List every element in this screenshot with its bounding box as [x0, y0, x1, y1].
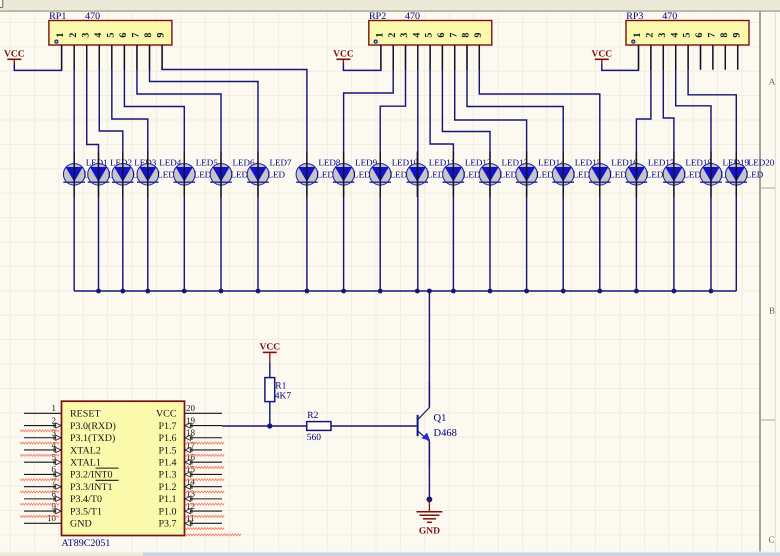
- svg-text:19: 19: [186, 415, 196, 425]
- svg-text:XTAL1: XTAL1: [70, 458, 101, 469]
- IC U1 INT0 overline: [96, 467, 119, 469]
- IC U1 pin 19 P1.7: [185, 415, 223, 428]
- svg-text:470: 470: [405, 11, 420, 22]
- wire RP1 pin8 to LED7 to bus: [150, 45, 258, 291]
- svg-text:LED: LED: [390, 170, 408, 180]
- LED D6 symbol: [210, 164, 232, 186]
- zone label C: [768, 535, 774, 545]
- IC U1 AT89C2051 body: [62, 401, 185, 535]
- transistor Q1 D468: [418, 382, 457, 467]
- wire RP3 pin5 to LED20 to bus: [688, 45, 736, 291]
- svg-text:2: 2: [387, 33, 398, 38]
- svg-text:P3.2/INT0: P3.2/INT0: [70, 470, 113, 481]
- svg-text:P1.4: P1.4: [158, 458, 176, 469]
- IC U1 pin 7 P3.3/INT1: [24, 476, 62, 489]
- IC U1 pin 5 XTAL1: [24, 452, 62, 465]
- svg-text:A: A: [769, 77, 776, 87]
- LED D16 symbol: [589, 164, 611, 186]
- resistor R1 4K7: [265, 378, 292, 402]
- LED D19 symbol: [700, 164, 722, 186]
- LED D13 comment label: [500, 170, 518, 180]
- LED D3 symbol: [112, 164, 134, 186]
- svg-text:P3.5/T1: P3.5/T1: [70, 506, 102, 517]
- wire R1 to junction: [269, 402, 271, 426]
- zone label A: [769, 77, 776, 87]
- wire VCC to RP3 pin1: [602, 45, 639, 70]
- IC U1 label P1.5: [158, 445, 176, 456]
- IC U1 pin 16 P1.4: [185, 452, 223, 465]
- svg-text:LED: LED: [157, 170, 175, 180]
- wire RP1 pin4 to LED3 to bus: [99, 45, 123, 291]
- svg-text:LED: LED: [500, 170, 518, 180]
- IC U1 pin 12 P1.0: [185, 501, 223, 514]
- svg-text:560: 560: [307, 433, 322, 443]
- IC U1 label P1.3: [158, 470, 176, 481]
- LED D14 designator label: [538, 158, 565, 168]
- svg-text:18: 18: [186, 428, 196, 438]
- svg-text:470: 470: [85, 11, 100, 22]
- toolbar strip: [0, 0, 780, 12]
- IC U1 pin 17 P1.5: [185, 440, 223, 453]
- IC U1 pin 13 P1.1: [185, 489, 223, 502]
- svg-text:1: 1: [55, 33, 66, 38]
- LED D17 designator label: [648, 158, 675, 168]
- IC U1 label P1.2: [158, 482, 176, 493]
- svg-text:1: 1: [375, 33, 386, 38]
- LED D3 designator label: [134, 158, 156, 168]
- wire bus to Q1 collector: [428, 291, 430, 408]
- ground symbol GND: [416, 499, 442, 536]
- IC U1 label P1.6: [158, 433, 176, 444]
- sheet border: [760, 12, 775, 553]
- svg-text:4: 4: [669, 33, 680, 38]
- IC U1 label P3.1(TXD): [70, 433, 115, 444]
- IC U1 pin 6 P3.2/INT0: [24, 464, 62, 477]
- IC U1 pin 20 VCC: [185, 403, 223, 413]
- IC U1 label XTAL2: [70, 445, 101, 456]
- IC U1 pin 1 RESET: [24, 403, 62, 413]
- IC U1 label P3.4/T0: [70, 494, 102, 505]
- wire RP2 pin9 to LED16 to bus: [479, 45, 600, 291]
- resistor pack RP1 470: [49, 11, 172, 45]
- svg-text:VCC: VCC: [156, 409, 177, 420]
- svg-text:2: 2: [68, 33, 79, 38]
- LED D20 designator label: [748, 158, 775, 168]
- svg-text:VCC: VCC: [4, 50, 25, 60]
- power symbol VCC R1: [260, 343, 281, 364]
- LED D12 symbol: [443, 164, 465, 186]
- IC U1 label P3.7: [158, 519, 176, 530]
- LED D9 designator label: [355, 158, 377, 168]
- svg-text:Q1: Q1: [434, 413, 447, 424]
- LED D5 designator label: [196, 158, 218, 168]
- IC U1 pin 11 P3.7: [185, 513, 223, 526]
- svg-text:P3.4/T0: P3.4/T0: [70, 494, 102, 505]
- svg-text:AT89C2051: AT89C2051: [62, 538, 111, 549]
- svg-text:LED: LED: [268, 170, 286, 180]
- LED D13 symbol: [479, 164, 501, 186]
- LED D1 designator label: [86, 158, 108, 168]
- LED D7 symbol: [247, 164, 269, 186]
- power symbol VCC RP3: [592, 50, 613, 64]
- svg-text:LED: LED: [194, 170, 212, 180]
- IC U1 label P3.2/INT0: [70, 470, 113, 481]
- IC U1 pin 10 GND: [24, 513, 62, 523]
- svg-text:RP1: RP1: [49, 11, 66, 22]
- IC U1 pin 14 P1.2: [185, 476, 223, 489]
- IC U1 label P1.0: [158, 506, 176, 517]
- IC U1 label P1.1: [158, 494, 176, 505]
- svg-text:D468: D468: [434, 428, 457, 439]
- LED D10 comment label: [390, 170, 408, 180]
- svg-text:LED: LED: [646, 170, 664, 180]
- LED D4 symbol: [137, 164, 159, 186]
- IC U1 label P3.0(RXD): [70, 421, 116, 432]
- svg-text:20: 20: [186, 403, 196, 413]
- svg-text:9: 9: [473, 33, 484, 38]
- RP pin segments: [62, 45, 738, 70]
- LED D10 symbol: [369, 164, 391, 186]
- wire cathode bus: [74, 290, 736, 292]
- svg-text:5: 5: [105, 33, 116, 38]
- wire RP3 pin8 stub: [724, 45, 726, 70]
- svg-text:LED: LED: [463, 170, 481, 180]
- svg-text:5: 5: [682, 33, 693, 38]
- svg-text:LED: LED: [536, 170, 554, 180]
- IC U1 label GND: [70, 519, 92, 530]
- LED D15 symbol: [552, 164, 574, 186]
- svg-text:8: 8: [719, 33, 730, 38]
- svg-text:6: 6: [118, 33, 129, 38]
- svg-text:B: B: [769, 306, 775, 316]
- svg-text:P3.0(RXD): P3.0(RXD): [70, 421, 116, 432]
- wire RP2 pin6 to LED13 to bus: [442, 45, 490, 291]
- svg-text:4K7: 4K7: [275, 392, 292, 402]
- svg-text:4: 4: [411, 33, 422, 38]
- LED D18 comment label: [683, 170, 701, 180]
- resistor pack RP3 470: [626, 11, 749, 45]
- wire RP2 pin7 to LED14 to bus: [455, 45, 527, 291]
- wire RP2 pin8 to LED15 to bus: [467, 45, 563, 291]
- wire RP3 pin3 to LED18 to bus: [663, 45, 674, 291]
- svg-text:470: 470: [662, 11, 677, 22]
- svg-text:LED: LED: [746, 170, 764, 180]
- svg-text:VCC: VCC: [333, 50, 354, 60]
- IC U1 designator AT89C2051: [62, 538, 111, 549]
- LED D19 comment label: [721, 170, 739, 180]
- svg-text:P3.3/INT1: P3.3/INT1: [70, 482, 113, 493]
- svg-text:16: 16: [186, 452, 196, 462]
- IC U1 pin 9 P3.5/T1: [24, 501, 62, 514]
- svg-text:GND: GND: [419, 527, 440, 537]
- LED D4 comment label: [157, 170, 175, 180]
- wire RP1 pin6 to LED5 to bus: [124, 45, 184, 291]
- LED D8 comment label: [316, 170, 334, 180]
- LED D9 symbol: [333, 164, 355, 186]
- LED D17 symbol: [626, 164, 648, 186]
- resistor R2 560: [307, 411, 331, 443]
- svg-text:LED: LED: [683, 170, 701, 180]
- wire R2 to Q1 base: [331, 425, 417, 427]
- svg-text:GND: GND: [70, 519, 92, 530]
- svg-text:LED20: LED20: [748, 158, 775, 168]
- svg-text:10: 10: [47, 513, 57, 523]
- zone label B: [769, 306, 775, 316]
- svg-text:RP3: RP3: [626, 11, 643, 22]
- IC U1 pin 2 P3.0(RXD): [24, 415, 62, 428]
- svg-text:1: 1: [632, 33, 643, 38]
- LED D14 comment label: [536, 170, 554, 180]
- emitter node dot: [427, 497, 433, 503]
- IC U1 INT1 overline: [96, 479, 119, 481]
- svg-text:P1.2: P1.2: [158, 482, 176, 493]
- wire RP1 pin2 to LED1 to bus: [73, 45, 75, 291]
- wire P1.7 to R2: [222, 425, 307, 427]
- LED D5 symbol: [174, 164, 196, 186]
- LED D15 designator label: [575, 158, 602, 168]
- wire RP3 pin4 to LED19 to bus: [676, 45, 711, 291]
- resistor pack RP2 470: [369, 11, 492, 45]
- LED D3 comment label: [132, 170, 150, 180]
- LED D15 comment label: [573, 170, 591, 180]
- svg-text:LED: LED: [231, 170, 249, 180]
- wire RP3 pin9 stub: [737, 45, 739, 70]
- IC U1 pin 3 P3.1(TXD): [24, 428, 62, 441]
- LED D17 comment label: [646, 170, 664, 180]
- wire RP1 pin9 to LED8 to bus: [162, 45, 307, 291]
- IC U1 pin 18 P1.6: [185, 428, 223, 441]
- LED D4 designator label: [159, 158, 181, 168]
- wire RP3 pin7 stub: [712, 45, 714, 70]
- LED D14 symbol: [516, 164, 538, 186]
- LED D6 designator label: [233, 158, 255, 168]
- svg-text:7: 7: [131, 33, 142, 38]
- svg-text:P3.1(TXD): P3.1(TXD): [70, 433, 115, 444]
- wire RP1 pin5 to LED4 to bus: [112, 45, 148, 291]
- IC U1 label P3.5/T1: [70, 506, 102, 517]
- wire RP2 pin2 to LED9 to bus: [344, 45, 394, 291]
- svg-text:P1.3: P1.3: [158, 470, 176, 481]
- svg-text:9: 9: [156, 33, 167, 38]
- IC U1 label XTAL1: [70, 458, 101, 469]
- LED D11 symbol: [407, 164, 429, 186]
- LED pin segments: [74, 152, 736, 198]
- svg-text:RESET: RESET: [70, 409, 101, 420]
- svg-text:13: 13: [186, 489, 196, 499]
- wire RP2 pin4 to LED11 to bus: [417, 45, 419, 291]
- LED D1 symbol: [63, 164, 85, 186]
- LED D2 designator label: [110, 158, 132, 168]
- svg-text:P3.7: P3.7: [158, 519, 176, 530]
- svg-text:3: 3: [80, 33, 91, 38]
- svg-text:3: 3: [657, 33, 668, 38]
- LED D20 comment label: [746, 170, 764, 180]
- power symbol VCC RP2: [333, 50, 354, 64]
- wire RP3 pin6 stub: [700, 45, 702, 70]
- IC U1 pin 4 XTAL2: [24, 440, 62, 453]
- wire VCC to RP1 pin1: [14, 45, 61, 70]
- IC U1 pin 8 P3.4/T0: [24, 489, 62, 502]
- error squiggles right pins: [185, 442, 224, 529]
- svg-text:P1.5: P1.5: [158, 445, 176, 456]
- LED D8 symbol: [296, 164, 318, 186]
- LED D9 comment label: [353, 170, 371, 180]
- LED D1 comment label: [84, 170, 102, 180]
- bus junction dots: [96, 289, 713, 294]
- power symbol VCC RP1: [4, 50, 25, 64]
- svg-text:VCC: VCC: [260, 343, 281, 353]
- svg-text:LED: LED: [316, 170, 334, 180]
- LED D7 designator label: [270, 158, 292, 168]
- junction dot base network: [267, 423, 272, 428]
- svg-text:XTAL2: XTAL2: [70, 445, 101, 456]
- svg-text:9: 9: [731, 33, 742, 38]
- svg-text:P1.1: P1.1: [158, 494, 176, 505]
- LED D18 designator label: [685, 158, 712, 168]
- svg-text:R1: R1: [275, 382, 286, 392]
- svg-text:6: 6: [694, 33, 705, 38]
- svg-text:P1.0: P1.0: [158, 506, 176, 517]
- wire RP3 pin2 to LED17 to bus: [636, 45, 651, 291]
- svg-text:7: 7: [448, 33, 459, 38]
- svg-text:P1.6: P1.6: [158, 433, 176, 444]
- wire RP2 pin3 to LED10 to bus: [380, 45, 405, 291]
- LED D12 designator label: [465, 158, 492, 168]
- IC U1 label RESET: [70, 409, 101, 420]
- wire RP2 pin5 to LED12 to bus: [430, 45, 453, 291]
- LED D10 designator label: [392, 158, 419, 168]
- svg-text:7: 7: [707, 33, 718, 38]
- svg-text:5: 5: [424, 33, 435, 38]
- svg-text:4: 4: [93, 33, 104, 38]
- IC U1 label P3.3/INT1: [70, 482, 113, 493]
- wire RP1 pin3 to LED2 to bus: [87, 45, 99, 291]
- svg-text:3: 3: [399, 33, 410, 38]
- LED D19 designator label: [723, 158, 750, 168]
- svg-text:14: 14: [186, 476, 196, 486]
- wire VCC to R1: [269, 363, 271, 378]
- svg-text:6: 6: [436, 33, 447, 38]
- IC U1 label VCC: [156, 409, 177, 420]
- svg-text:LED: LED: [353, 170, 371, 180]
- LED D12 comment label: [463, 170, 481, 180]
- svg-text:17: 17: [186, 440, 196, 450]
- bottom scrollbar strip: [0, 552, 780, 556]
- svg-text:R2: R2: [307, 411, 318, 421]
- svg-text:RP2: RP2: [369, 11, 386, 22]
- svg-text:1: 1: [52, 403, 57, 413]
- IC U1 label P1.7: [158, 421, 176, 432]
- svg-text:LED7: LED7: [270, 158, 292, 168]
- svg-text:15: 15: [186, 464, 196, 474]
- LED D5 comment label: [194, 170, 212, 180]
- error squiggle below IC: [185, 534, 241, 536]
- LED D13 designator label: [502, 158, 529, 168]
- IC U1 pin 15 P1.3: [185, 464, 223, 477]
- svg-text:LED: LED: [573, 170, 591, 180]
- LED D11 comment label: [427, 170, 445, 180]
- IC U1 label P1.4: [158, 458, 176, 469]
- LED D6 comment label: [231, 170, 249, 180]
- LED D20 symbol: [726, 164, 748, 186]
- svg-text:C: C: [768, 535, 774, 545]
- LED D18 symbol: [663, 164, 685, 186]
- wire Q1 emitter to GND: [428, 441, 430, 499]
- svg-text:2: 2: [645, 33, 656, 38]
- LED D8 designator label: [318, 158, 340, 168]
- svg-text:VCC: VCC: [592, 50, 613, 60]
- error squiggles left pins: [20, 430, 59, 518]
- wire RP1 pin7 to LED6 to bus: [137, 45, 221, 291]
- svg-text:8: 8: [143, 33, 154, 38]
- svg-text:P1.7: P1.7: [158, 421, 176, 432]
- LED D16 designator label: [611, 158, 638, 168]
- svg-text:8: 8: [461, 33, 472, 38]
- wire VCC to RP2 pin1: [343, 45, 381, 70]
- svg-text:LED: LED: [609, 170, 627, 180]
- LED D11 designator label: [429, 158, 455, 168]
- LED D2 comment label: [108, 170, 126, 180]
- LED D7 comment label: [268, 170, 286, 180]
- LED D16 comment label: [609, 170, 627, 180]
- LED D2 symbol: [88, 164, 110, 186]
